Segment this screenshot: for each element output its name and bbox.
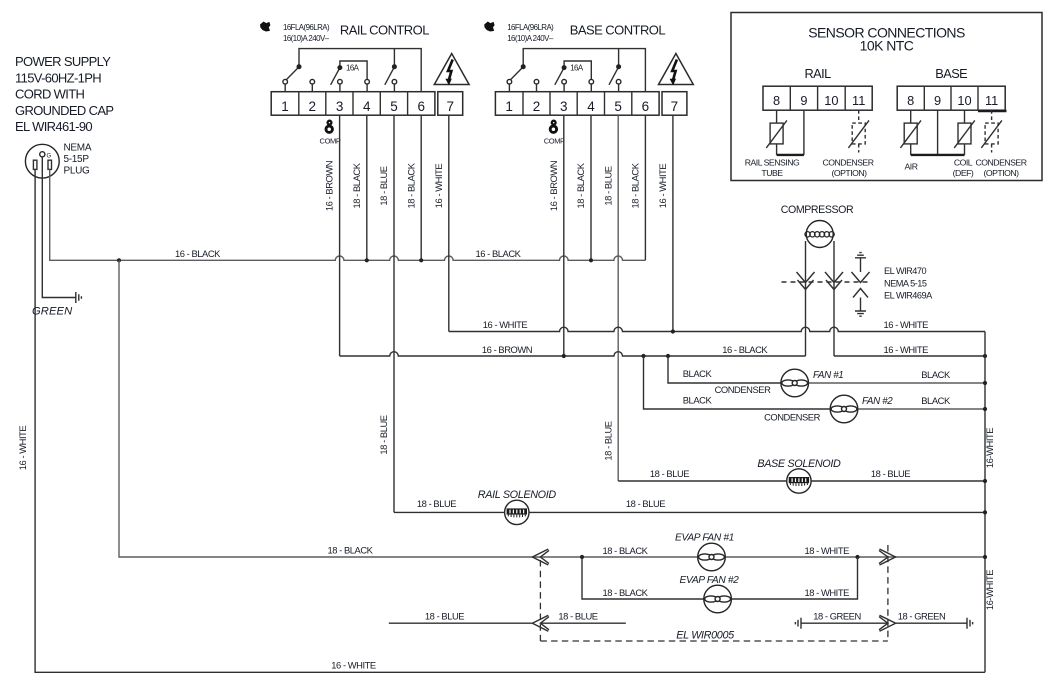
compressor right lead wire xyxy=(833,241,835,356)
NEMA disconnect female chevron xyxy=(853,289,868,298)
svg-text:18 - BLUE: 18 - BLUE xyxy=(558,611,597,622)
svg-text:(DEF): (DEF) xyxy=(953,168,974,178)
svg-text:18 - BLACK: 18 - BLACK xyxy=(602,545,648,556)
svg-text:18 - BLACK: 18 - BLACK xyxy=(575,162,586,208)
wire base T5 18-BLUE vertical down to base solenoid row xyxy=(617,115,619,481)
base sensor bottom link xyxy=(911,154,965,156)
wire 16-WHITE left vertical from plug left prong down and bottom run to right bus xyxy=(35,170,985,673)
svg-text:18 - BLUE: 18 - BLUE xyxy=(602,421,613,460)
svg-text:COIL: COIL xyxy=(954,158,973,168)
svg-text:16 - WHITE: 16 - WHITE xyxy=(657,164,668,209)
svg-text:11: 11 xyxy=(852,93,865,108)
svg-text:18 - WHITE: 18 - WHITE xyxy=(804,587,849,598)
svg-text:18 - BLUE: 18 - BLUE xyxy=(626,498,665,509)
rail solenoid coil xyxy=(505,500,529,524)
svg-text:EL WIR469A: EL WIR469A xyxy=(884,290,933,300)
svg-text:18 - BLUE: 18 - BLUE xyxy=(602,166,613,205)
rail terminal 9 return wire xyxy=(803,110,805,155)
NEMA disconnect lead lower xyxy=(860,298,862,312)
relay block: RAIL CONTROL xyxy=(260,22,469,146)
sensor connections enclosure box xyxy=(731,13,1042,181)
rail sensing tube thermistor on terminal 8 xyxy=(766,110,787,155)
wire rail T5 18-BLUE vertical down to rail solenoid row xyxy=(393,115,395,512)
wire base T7 16-WHITE vertical xyxy=(672,115,674,331)
wire condenser fan2 feed from 16-BROWN bus xyxy=(644,356,831,409)
svg-text:FAN #2: FAN #2 xyxy=(862,396,893,407)
wire 16-BLACK from plug right prong down then right across page to base control terminal 6, hops over rail T3,T5,T7 and base T3,T5 xyxy=(50,170,646,261)
svg-text:CONDENSER: CONDENSER xyxy=(715,384,772,395)
svg-text:EL WIR0005: EL WIR0005 xyxy=(676,630,735,642)
svg-text:EL WIR461-90: EL WIR461-90 xyxy=(15,119,92,134)
svg-text:18 - BLUE: 18 - BLUE xyxy=(417,498,456,509)
svg-text:BASE SOLENOID: BASE SOLENOID xyxy=(757,458,841,470)
wire 16-WHITE compressor right lead to right bus xyxy=(834,355,985,357)
plug P1 left prong xyxy=(33,160,37,169)
svg-text:RAIL SENSING: RAIL SENSING xyxy=(745,158,800,168)
wire 18-BLACK evap feed from plug junction down and right across to right bus xyxy=(119,260,985,557)
svg-text:16 - WHITE: 16 - WHITE xyxy=(17,426,28,471)
svg-text:BLACK: BLACK xyxy=(683,395,713,406)
svg-text:18 - BLACK: 18 - BLACK xyxy=(602,587,648,598)
wire evap fan2 branch xyxy=(582,557,858,599)
svg-text:16 - BLACK: 16 - BLACK xyxy=(175,248,221,259)
svg-text:18 - WHITE: 18 - WHITE xyxy=(804,545,849,556)
wire 18-BLUE stub right of connector xyxy=(540,622,625,624)
svg-text:16 - WHITE: 16 - WHITE xyxy=(433,164,444,209)
condenser option thermistor on rail terminal 11 xyxy=(848,110,869,152)
connector chevrons evap right (right pointing) xyxy=(880,549,896,565)
svg-text:TUBE: TUBE xyxy=(761,168,783,178)
dashed disconnect line xyxy=(782,281,870,283)
junction fan2 at right bus xyxy=(983,407,987,411)
svg-text:NEMA 5-15: NEMA 5-15 xyxy=(884,278,927,288)
svg-text:16 - BROWN: 16 - BROWN xyxy=(324,161,335,211)
svg-text:18 - BLUE: 18 - BLUE xyxy=(871,468,910,479)
svg-text:CONDENSER: CONDENSER xyxy=(975,158,1026,168)
compressor winding coil xyxy=(805,232,834,237)
svg-text:GREEN: GREEN xyxy=(32,306,73,318)
svg-text:BLACK: BLACK xyxy=(921,395,951,406)
ground symbol GREEN (sideways) xyxy=(76,292,82,303)
svg-text:16 - WHITE: 16 - WHITE xyxy=(883,344,928,355)
svg-text:9: 9 xyxy=(800,93,807,108)
wire condenser fan1 feed from 16-BROWN bus xyxy=(668,356,782,383)
svg-text:BASE: BASE xyxy=(935,66,967,81)
svg-text:5-15P: 5-15P xyxy=(64,154,90,165)
svg-text:AIR: AIR xyxy=(905,162,918,172)
svg-text:18 - BLUE: 18 - BLUE xyxy=(425,611,464,622)
air thermistor on base terminal 8 xyxy=(900,110,921,155)
junction rail solenoid at right bus xyxy=(983,510,987,514)
wire rail T4 18-BLACK vertical xyxy=(366,115,368,260)
wire 18-GREEN right xyxy=(896,622,967,624)
ground symbol green wire right xyxy=(967,618,973,629)
svg-text:8: 8 xyxy=(773,93,780,108)
evap fan motor #1 xyxy=(698,543,726,571)
wire 16-BROWN from rail T3 right to compressor left lead, hop over rail T5 and base T5 xyxy=(340,352,806,356)
svg-text:COMPRESSOR: COMPRESSOR xyxy=(781,204,854,216)
svg-text:9: 9 xyxy=(934,93,941,108)
svg-text:16 - WHITE: 16 - WHITE xyxy=(331,659,376,670)
svg-text:18 - BLACK: 18 - BLACK xyxy=(327,545,373,556)
connector chevrons on right compressor lead xyxy=(825,272,843,283)
svg-text:NEMA: NEMA xyxy=(64,143,92,154)
dashed harness boundary bottom xyxy=(540,640,888,642)
junction fan1 at right bus xyxy=(983,381,987,385)
BASE sensor terminal strip 8-11 xyxy=(897,86,1005,110)
svg-text:EL WIR470: EL WIR470 xyxy=(884,266,927,276)
svg-text:BASE CONTROL: BASE CONTROL xyxy=(570,23,666,38)
svg-text:18 - BLACK: 18 - BLACK xyxy=(351,162,362,208)
junction base T3 on 16-BROWN run xyxy=(562,354,566,358)
svg-text:BLACK: BLACK xyxy=(683,368,713,379)
RAIL sensor terminal strip 8-11 xyxy=(763,86,872,110)
svg-text:8: 8 xyxy=(907,93,914,108)
wire condenser fan2 to right bus xyxy=(857,408,985,410)
svg-text:FAN #1: FAN #1 xyxy=(813,370,843,381)
svg-text:BLACK: BLACK xyxy=(921,369,951,380)
svg-text:CONDENSER: CONDENSER xyxy=(764,411,821,422)
compressor M1 body xyxy=(806,221,833,248)
connector chevrons green row (right pointing) xyxy=(880,615,896,631)
svg-text:16 - BLACK: 16 - BLACK xyxy=(475,248,521,259)
svg-text:18 - BLUE: 18 - BLUE xyxy=(650,468,689,479)
junction condenser fan1 feed xyxy=(666,354,670,358)
wire 18-BLUE base solenoid row xyxy=(618,480,985,482)
svg-text:18 - BLUE: 18 - BLUE xyxy=(378,415,389,454)
right bus 16-WHITE vertical xyxy=(984,332,986,673)
SECTION: evap area xyxy=(119,260,987,641)
junction compressor neutral at right bus xyxy=(983,354,987,358)
svg-text:18 - GREEN: 18 - GREEN xyxy=(898,611,946,622)
dashed harness boundary left vertical xyxy=(539,560,541,641)
condenser fan motor FAN#2 xyxy=(830,395,858,423)
wire base T6 18-BLACK vertical xyxy=(644,115,646,260)
ground symbol above NEMA disconnect xyxy=(855,253,866,258)
SECTION: main wiring xyxy=(331,115,987,672)
ground symbol below NEMA disconnect xyxy=(855,311,866,316)
svg-text:EVAP FAN #2: EVAP FAN #2 xyxy=(680,575,740,586)
plug P1 right prong xyxy=(48,160,52,169)
junction evap fan2 branch xyxy=(580,555,584,559)
junction at plug feed and evap drop xyxy=(117,258,121,262)
wire 18-BLUE rail solenoid row xyxy=(394,511,985,513)
compressor left lead wire xyxy=(805,241,807,356)
wire base T4 18-BLACK vertical xyxy=(590,115,592,260)
condenser fan motor FAN#1 xyxy=(781,369,809,397)
svg-text:RAIL CONTROL: RAIL CONTROL xyxy=(340,23,429,38)
svg-text:115V-60HZ-1PH: 115V-60HZ-1PH xyxy=(15,70,101,85)
svg-text:16 - BLACK: 16 - BLACK xyxy=(722,344,768,355)
relay block: BASE CONTROL xyxy=(484,22,693,146)
svg-text:18 - BLACK: 18 - BLACK xyxy=(630,162,641,208)
svg-text:GROUNDED CAP: GROUNDED CAP xyxy=(15,103,113,118)
svg-text:CONDENSER: CONDENSER xyxy=(822,158,873,168)
wire 18-BLUE stub left of connector xyxy=(389,622,533,624)
svg-text:POWER SUPPLY: POWER SUPPLY xyxy=(15,54,111,69)
NEMA disconnect male chevron xyxy=(852,272,870,283)
wire green from plug ground pin to ground xyxy=(42,157,76,298)
SECTION: vertical labels xyxy=(17,161,995,610)
connector chevrons blue row (left pointing) xyxy=(532,615,548,631)
ground symbol green wire left xyxy=(795,618,801,629)
svg-text:(OPTION): (OPTION) xyxy=(831,168,867,178)
svg-text:16 - BROWN: 16 - BROWN xyxy=(548,161,559,211)
svg-text:16 - BROWN: 16 - BROWN xyxy=(482,344,532,355)
svg-text:18 - GREEN: 18 - GREEN xyxy=(813,611,861,622)
wire base T3 16-BROWN vertical xyxy=(563,115,565,356)
dashed harness boundary right vertical xyxy=(887,545,889,641)
svg-text:10K NTC: 10K NTC xyxy=(860,38,914,54)
svg-text:16 - WHITE: 16 - WHITE xyxy=(483,319,528,330)
wire rail T6 18-BLACK vertical xyxy=(420,115,422,260)
base terminal 9 return wire xyxy=(937,110,939,155)
svg-text:16 - WHITE: 16 - WHITE xyxy=(883,319,928,330)
junction condenser fan2 feed xyxy=(641,354,645,358)
svg-text:10: 10 xyxy=(957,93,971,108)
svg-text:18 - BLACK: 18 - BLACK xyxy=(405,162,416,208)
svg-text:16-WHITE: 16-WHITE xyxy=(984,428,995,468)
junction rail T6 on 16-BLACK bus xyxy=(419,258,423,262)
wire 18-GREEN left xyxy=(801,622,888,624)
base solenoid coil xyxy=(787,469,811,493)
condenser option thermistor on base terminal 11 xyxy=(981,110,1002,152)
svg-text:(OPTION): (OPTION) xyxy=(983,168,1019,178)
evap fan motor #2 xyxy=(704,585,732,613)
connector chevrons on left compressor lead xyxy=(797,272,815,283)
connector chevrons evap feed (left pointing) xyxy=(532,549,548,565)
svg-text:18 - BLUE: 18 - BLUE xyxy=(378,166,389,205)
svg-text:CORD WITH: CORD WITH xyxy=(15,87,85,102)
rail sensor bottom link xyxy=(777,154,804,156)
junction rail T4 on 16-BLACK bus xyxy=(365,258,369,262)
junction base T7 on 16-WHITE run xyxy=(671,329,675,333)
wire 16-WHITE from rail T7 right to right bus, hops over base T3,T5 and compressor leads xyxy=(449,327,985,331)
plug P1 ground pin G xyxy=(40,152,45,157)
svg-text:EVAP FAN #1: EVAP FAN #1 xyxy=(675,533,734,544)
NEMA disconnect lead upper xyxy=(860,258,862,272)
svg-text:11: 11 xyxy=(985,93,998,108)
svg-text:RAIL SOLENOID: RAIL SOLENOID xyxy=(478,489,557,501)
junction base T4 on 16-BLACK bus xyxy=(589,258,593,262)
junction evap row at right bus xyxy=(983,555,987,559)
thick bar under base terminal 11 xyxy=(978,110,1007,113)
SECTION: compressor xyxy=(781,204,933,356)
svg-text:RAIL: RAIL xyxy=(804,66,831,81)
svg-text:PLUG: PLUG xyxy=(64,165,91,176)
wire condenser fan1 to right bus xyxy=(808,382,985,384)
junction base solenoid at right bus xyxy=(983,479,987,483)
junction evap return xyxy=(855,555,859,559)
coil def thermistor on base terminal 10 xyxy=(954,110,975,155)
plug P1 NEMA 5-15P body xyxy=(25,144,59,178)
wire rail T7 16-WHITE vertical xyxy=(448,115,450,331)
wire rail T3 16-BROWN vertical xyxy=(339,115,341,356)
svg-text:16-WHITE: 16-WHITE xyxy=(984,570,995,610)
svg-text:10: 10 xyxy=(824,93,838,108)
